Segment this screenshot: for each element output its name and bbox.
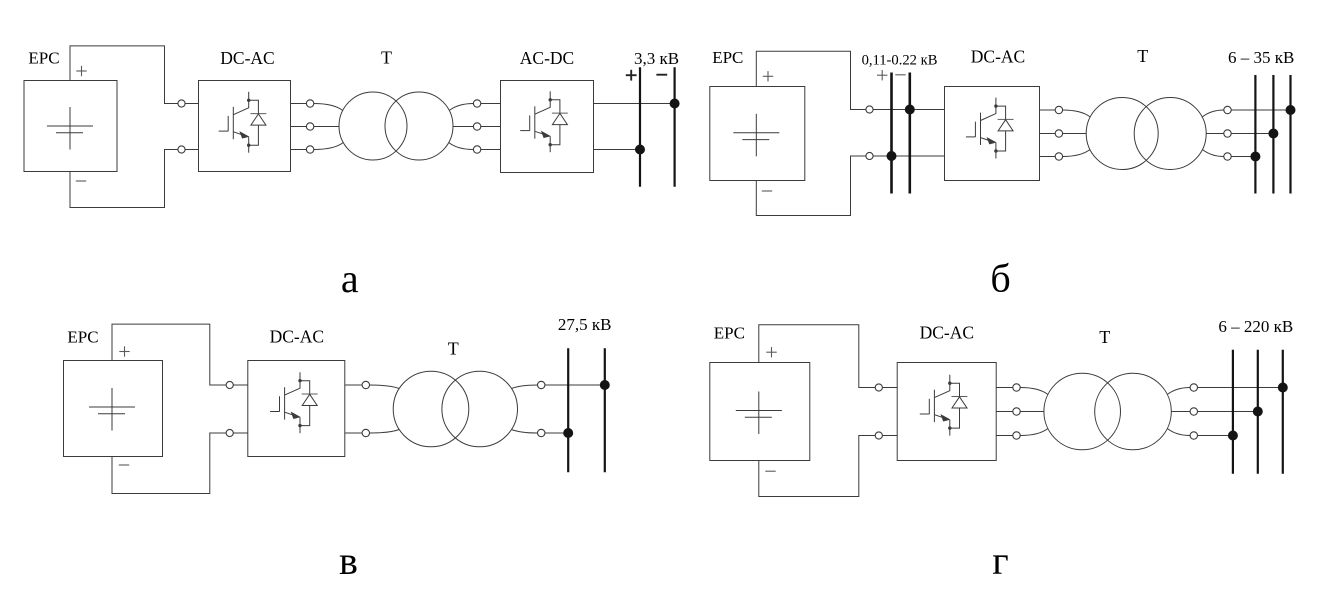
- svg-text:DC-AC: DC-AC: [920, 323, 974, 343]
- svg-text:EPC: EPC: [67, 328, 98, 347]
- svg-text:а: а: [341, 256, 359, 301]
- svg-text:DC-AC: DC-AC: [270, 327, 324, 347]
- svg-text:EPC: EPC: [714, 324, 745, 343]
- svg-text:6 – 220 кВ: 6 – 220 кВ: [1218, 317, 1293, 336]
- svg-text:6 – 35 кВ: 6 – 35 кВ: [1228, 48, 1294, 67]
- svg-text:0,11-0.22 кВ: 0,11-0.22 кВ: [862, 53, 938, 69]
- svg-text:в: в: [339, 538, 358, 583]
- svg-text:б: б: [990, 256, 1010, 301]
- svg-text:EPC: EPC: [712, 48, 743, 67]
- svg-text:DC-AC: DC-AC: [220, 48, 274, 68]
- svg-text:г: г: [992, 538, 1008, 583]
- svg-text:T: T: [381, 48, 392, 68]
- svg-text:3,3 кВ: 3,3 кВ: [634, 49, 679, 68]
- svg-text:AC-DC: AC-DC: [520, 48, 574, 68]
- svg-text:EPC: EPC: [28, 49, 59, 68]
- svg-text:DC-AC: DC-AC: [971, 47, 1025, 67]
- svg-text:T: T: [448, 339, 459, 359]
- svg-text:27,5 кВ: 27,5 кВ: [558, 315, 612, 334]
- svg-text:T: T: [1099, 327, 1110, 347]
- svg-text:T: T: [1137, 46, 1148, 66]
